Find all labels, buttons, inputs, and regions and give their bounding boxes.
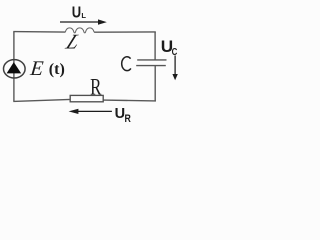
capacitor C plates <box>136 60 166 66</box>
svg-text:R: R <box>125 113 131 125</box>
wire: top-left segment <box>13 31 65 33</box>
wire: right branch upper <box>154 32 156 60</box>
wire: top-right segment <box>94 31 156 33</box>
wire: left branch <box>13 32 15 102</box>
svg-text:U: U <box>72 5 81 22</box>
voltage label U_C <box>161 37 178 57</box>
svg-text:(t): (t) <box>49 61 65 78</box>
voltage label U_R <box>115 106 131 125</box>
source E(t): circle <box>4 60 26 78</box>
wire: bottom-right segment <box>103 99 156 102</box>
label E <box>28 56 44 80</box>
label C <box>122 57 131 71</box>
wire: right branch lower <box>154 66 156 102</box>
source E(t): arrow triangle <box>7 62 22 73</box>
svg-text:U: U <box>115 106 125 122</box>
svg-text:R: R <box>90 75 102 100</box>
voltage label U_L <box>72 5 87 22</box>
label R <box>90 75 102 100</box>
svg-text:L: L <box>81 11 86 20</box>
voltage arrow U_R (points left) <box>69 109 112 114</box>
resistor R body <box>70 95 103 101</box>
wire: bottom-left segment <box>13 99 70 101</box>
voltage arrow U_C (points down) <box>172 56 177 81</box>
label L <box>62 30 85 54</box>
voltage arrow U_L (points right) <box>60 19 107 24</box>
svg-text:E: E <box>28 56 44 80</box>
inductor L <box>65 28 94 33</box>
